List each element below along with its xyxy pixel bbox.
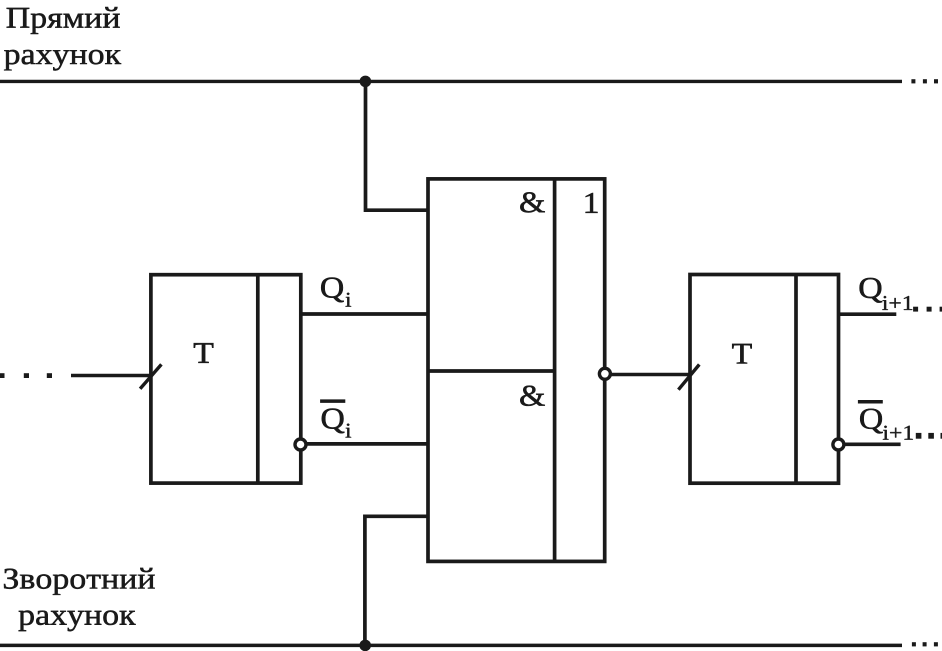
label: Q̄i (322, 409, 351, 438)
label: T (U3) (732, 344, 752, 364)
ellipsis: left input continuation (0, 373, 52, 378)
ellipsis: after Q̄i+1 (916, 433, 942, 439)
inversion bubble: U3 inverse output (833, 439, 844, 450)
label: Qi (321, 278, 351, 307)
clock slash: right flip-flop input (678, 365, 699, 390)
label: Q̄i+1 overbar (858, 400, 883, 404)
ellipsis: after Qi+1 (913, 307, 942, 312)
wire: U2 output to right flip-flop input (610, 373, 690, 376)
gate U2 (AND-OR-invert) body (428, 179, 605, 562)
node: junction on top rail (360, 76, 372, 88)
inversion bubble: U1 inverse output (295, 439, 306, 450)
label: & (lower AND) (520, 386, 544, 406)
label: & (upper AND) (520, 192, 544, 212)
wire: count input to left flip-flop (71, 374, 151, 377)
label: Qi+1 (860, 278, 913, 310)
clock slash: left flip-flop input (140, 364, 161, 388)
node: junction on bottom rail (359, 640, 371, 651)
net label: Зворотний рахунок (reverse count) (4, 568, 155, 631)
label: Q̄i+1 (860, 409, 913, 440)
wire: top rail down to upper AND input (366, 81, 429, 210)
wire: Qi output to upper AND input (301, 312, 428, 316)
wire: top count rail (0, 80, 902, 83)
ellipsis: top rail continuation (911, 79, 938, 83)
wire: bottom count rail (0, 644, 902, 648)
U1 internal divider (256, 275, 260, 483)
ellipsis: bottom rail continuation (912, 642, 938, 646)
net label: Прямий рахунок (direct count) (4, 7, 121, 70)
wire: Q̄i+1 output (844, 442, 901, 446)
wire: Q̄i output to lower AND input (306, 442, 428, 446)
flip-flop U3 (right T trigger) body (690, 275, 839, 484)
U3 internal divider (794, 275, 798, 484)
label: T (U1) (194, 343, 214, 363)
U2 internal vertical divider (OR column) (553, 179, 557, 562)
label: Q̄i overbar (320, 399, 345, 403)
label: 1 (OR) (586, 193, 598, 213)
wire: bottom rail up to lower AND input (365, 516, 428, 645)
wire: Qi+1 output (839, 312, 897, 316)
U2 horizontal divider between AND sections (428, 369, 555, 373)
inversion bubble: U2 output (599, 368, 610, 379)
flip-flop U1 (left T trigger) body (151, 275, 301, 483)
